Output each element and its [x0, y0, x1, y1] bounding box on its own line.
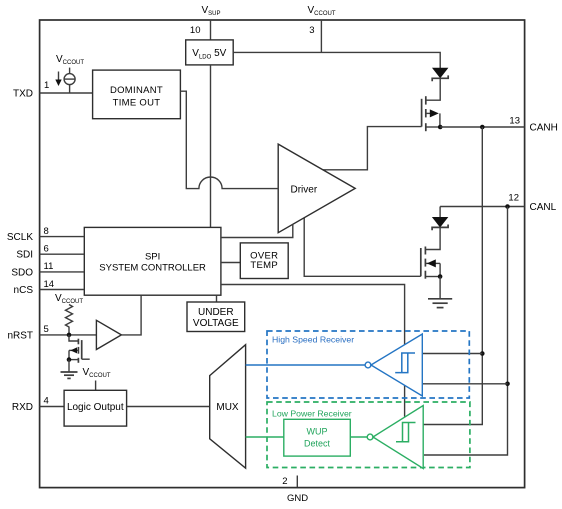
transistor Q3 nRST	[69, 335, 90, 363]
IC boundary	[40, 20, 525, 488]
svg-text:nRST: nRST	[7, 330, 33, 341]
wire RXD	[39, 406, 64, 408]
wire SDI	[39, 253, 84, 255]
wire CANL	[440, 206, 524, 208]
block Logic Output	[64, 390, 127, 426]
pin number 10	[190, 25, 201, 36]
svg-text:GND: GND	[287, 493, 308, 504]
wire SPI to Driver input	[221, 224, 293, 237]
svg-text:UNDER: UNDER	[198, 307, 234, 318]
node VCCOUT label TXD pull-up	[56, 54, 84, 66]
wire SPI to Under Voltage	[216, 295, 218, 302]
current source I1	[64, 68, 75, 93]
svg-text:DOMINANT: DOMINANT	[110, 85, 163, 96]
svg-text:10: 10	[190, 25, 201, 36]
wire WUP Detect to LP receiver	[350, 436, 367, 438]
pin GND stub	[296, 476, 298, 488]
pin nCS label	[14, 285, 34, 296]
pin number 8	[44, 226, 49, 237]
box High Speed Receiver	[267, 331, 469, 398]
svg-text:13: 13	[509, 116, 520, 127]
regulator VLDO 5V	[186, 40, 234, 65]
svg-text:Detect: Detect	[304, 439, 331, 449]
wire CANL sense tap	[424, 207, 508, 456]
wire CANH sense tap	[423, 127, 482, 425]
svg-text:11: 11	[44, 261, 54, 272]
pin number 3	[309, 25, 314, 36]
pin 10 stub VSUP	[210, 19, 212, 40]
wire CANL to D2	[439, 207, 441, 218]
node VCCOUT label top	[308, 5, 336, 17]
junction CANH tap	[480, 125, 485, 130]
junction CANL tap	[505, 204, 510, 209]
pin number 13	[509, 116, 520, 127]
wire D1 to Q1 drain	[426, 78, 440, 100]
node VSUP label	[202, 5, 221, 17]
svg-text:High Speed Receiver: High Speed Receiver	[272, 335, 354, 345]
wire VCCOUT to Logic Output	[95, 381, 97, 391]
svg-text:CANL: CANL	[530, 202, 557, 213]
pin GND label	[287, 493, 308, 504]
junction Q2 source	[438, 274, 443, 279]
block WUP Detect	[284, 419, 351, 456]
svg-text:8: 8	[44, 226, 49, 237]
block Under Voltage	[187, 302, 245, 332]
svg-text:TIME OUT: TIME OUT	[113, 98, 161, 109]
wire nRST	[39, 334, 96, 336]
junction CANH to HS receiver	[480, 351, 485, 356]
pin SDO label	[11, 267, 33, 278]
svg-text:Driver: Driver	[291, 185, 318, 196]
wire TXD	[39, 92, 92, 94]
junction Q1 source CANH	[438, 125, 443, 130]
wire Dominant Time Out to Driver with hop	[180, 91, 278, 188]
ground Q2 source	[428, 277, 452, 308]
svg-text:1: 1	[44, 80, 49, 91]
wire HS receiver input top	[422, 353, 482, 355]
pin number 11	[44, 261, 54, 272]
svg-text:2: 2	[282, 476, 287, 487]
wire Logic Output to MUX	[127, 406, 210, 408]
ground Q3	[61, 360, 78, 379]
svg-text:TXD: TXD	[13, 89, 33, 100]
op-amp Driver	[278, 144, 355, 233]
pin TXD label	[13, 89, 33, 100]
transistor Q1 high-side	[422, 96, 441, 131]
resistor R1 nRST pull-up	[66, 305, 73, 335]
pin number 12	[508, 193, 519, 204]
junction Q3 source	[67, 357, 72, 362]
wire MUX to WUP Detect	[246, 436, 284, 438]
svg-text:SYSTEM CONTROLLER: SYSTEM CONTROLLER	[99, 262, 206, 273]
svg-text:3: 3	[309, 25, 314, 36]
svg-text:12: 12	[508, 193, 519, 204]
wire buffer to SPI	[121, 295, 141, 335]
box Low Power Receiver	[267, 402, 470, 468]
current source arrow TXD	[55, 72, 61, 87]
svg-text:Low Power Receiver: Low Power Receiver	[272, 409, 352, 419]
diode D1 high-side zener	[432, 68, 448, 81]
wire HS receiver input bottom	[422, 383, 507, 385]
wire SPI to low power receiver enable	[221, 285, 405, 417]
multiplexer MUX	[210, 345, 246, 469]
wire driver to Q1 gate	[323, 127, 422, 170]
block SPI System Controller	[84, 227, 221, 295]
svg-text:RXD: RXD	[12, 402, 33, 413]
junction CANL to HS receiver	[505, 382, 510, 387]
pin number 4	[44, 396, 49, 407]
wire SCLK	[39, 236, 84, 238]
wire nCS	[39, 289, 84, 291]
svg-text:SDI: SDI	[16, 250, 33, 261]
pin SCLK label	[7, 232, 33, 243]
pin number 5	[44, 324, 49, 335]
svg-text:SPI: SPI	[145, 252, 160, 263]
pin RXD label	[12, 402, 33, 413]
pin CANH label	[530, 123, 558, 134]
wire MUX to HS receiver	[246, 364, 366, 366]
pin number 1	[44, 80, 49, 91]
block Over Temp	[240, 243, 288, 279]
svg-text:SCLK: SCLK	[7, 232, 33, 243]
comparator LP receiver	[367, 406, 423, 469]
node VCCOUT label logic output	[83, 367, 111, 379]
svg-text:nCS: nCS	[14, 285, 34, 296]
wire driver to Q2 gate	[304, 218, 421, 277]
svg-text:4: 4	[44, 396, 49, 407]
pin number 2	[282, 476, 287, 487]
comparator HS receiver	[365, 334, 422, 396]
svg-text:VOLTAGE: VOLTAGE	[193, 318, 239, 329]
svg-text:14: 14	[44, 279, 55, 290]
svg-text:MUX: MUX	[216, 402, 239, 413]
pin 3 stub VCCOUT	[320, 19, 322, 52]
wire SPI to Over Temp	[221, 262, 240, 264]
node VCCOUT label nRST pull-up	[55, 293, 83, 305]
svg-text:5: 5	[44, 324, 49, 335]
svg-text:WUP: WUP	[307, 427, 328, 437]
svg-text:SDO: SDO	[11, 267, 33, 278]
svg-text:6: 6	[44, 244, 49, 255]
diode D2 low-side zener	[432, 217, 448, 230]
svg-text:Logic Output: Logic Output	[67, 402, 124, 413]
wire SDO	[39, 271, 84, 273]
buffer U2 nRST	[96, 320, 121, 349]
transistor Q2 low-side	[421, 247, 440, 279]
wire CANH	[440, 126, 524, 128]
pin SDI label	[16, 250, 33, 261]
block Dominant Time Out	[93, 70, 181, 119]
wire D2 to Q2 drain	[425, 227, 440, 249]
wire VSUP to SPI controller	[210, 65, 212, 228]
pin number 6	[44, 244, 49, 255]
svg-text:TEMP: TEMP	[250, 260, 278, 271]
pin CANL label	[530, 202, 557, 213]
junction nRST	[67, 333, 72, 338]
pin nRST label	[7, 330, 33, 341]
pin number 14	[44, 279, 55, 290]
wire VCCOUT rail	[233, 52, 440, 68]
svg-text:CANH: CANH	[530, 123, 558, 134]
